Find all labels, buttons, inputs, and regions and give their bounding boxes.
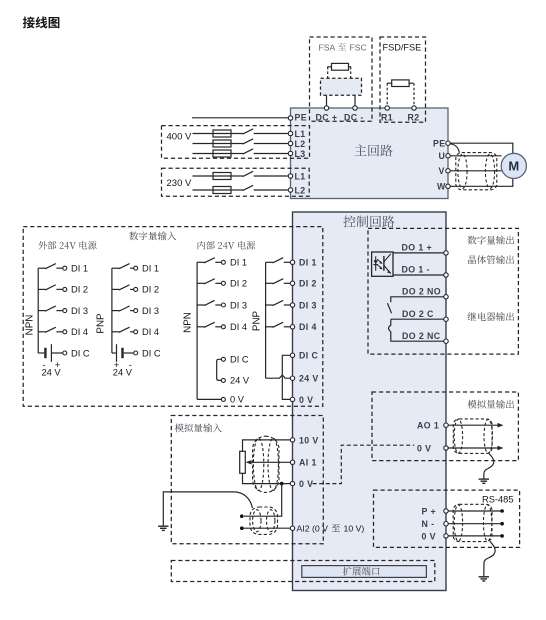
svg-text:10 V: 10 V bbox=[299, 435, 319, 445]
node internal NPN DI 3 bbox=[221, 303, 225, 307]
wire bus to 24V with crossover hop bbox=[266, 375, 291, 378]
label 数字量输出 bbox=[468, 236, 514, 245]
svg-text:L1: L1 bbox=[295, 171, 306, 181]
svg-text:0 V: 0 V bbox=[299, 395, 313, 405]
terminal DI 1 (control) bbox=[290, 260, 294, 264]
node external NPN DI 4 bbox=[63, 330, 67, 334]
relay blade DO2 bbox=[388, 304, 392, 313]
svg-text:10 V): 10 V) bbox=[344, 523, 365, 533]
wire pot bottom to 0V bbox=[243, 473, 291, 483]
wire line PE bbox=[192, 117, 288, 119]
node external PNP DI 4 bbox=[134, 330, 138, 334]
switch external PNP DI 1 bbox=[112, 267, 120, 269]
battery 24V external NPN bbox=[38, 352, 44, 354]
switch internal NPN DI 1 bbox=[197, 261, 205, 263]
box expansion (dashed) bbox=[171, 561, 435, 582]
svg-text:DI 3: DI 3 bbox=[71, 306, 88, 316]
fuse 400V L3 bbox=[213, 150, 231, 157]
svg-text:DO 2 NO: DO 2 NO bbox=[402, 287, 441, 297]
fuse 400V L1 bbox=[213, 130, 231, 137]
svg-text:DI 1: DI 1 bbox=[142, 264, 159, 274]
svg-text:DI 4: DI 4 bbox=[299, 322, 317, 332]
terminal R1 bbox=[385, 106, 389, 110]
svg-text:DO 1 -: DO 1 - bbox=[402, 265, 430, 275]
node internal NPN DI 4 bbox=[221, 325, 225, 329]
svg-text:24 V: 24 V bbox=[299, 374, 319, 384]
svg-text:FSD/FSE: FSD/FSE bbox=[383, 43, 422, 53]
terminal 24 V (control) bbox=[290, 376, 294, 380]
switch external NPN DI 3 bbox=[38, 310, 46, 312]
wire DIC to 0V link (internal PNP) bbox=[282, 355, 290, 399]
node external PNP DI 1 bbox=[134, 266, 138, 270]
svg-text:NPN: NPN bbox=[24, 315, 35, 336]
wire 400V L2 bbox=[193, 143, 236, 145]
terminal N - (RS-485) bbox=[444, 522, 448, 526]
motor M bbox=[501, 153, 526, 178]
wire 230V L1 bbox=[193, 175, 236, 177]
svg-text:U: U bbox=[439, 151, 446, 161]
ground (RS-485) bbox=[483, 576, 485, 578]
svg-text:P +: P + bbox=[422, 506, 437, 516]
wire pot top to 10V bbox=[243, 440, 291, 451]
svg-text:24 V: 24 V bbox=[230, 376, 250, 386]
wire 0V out bbox=[448, 447, 497, 449]
svg-text:DI 1: DI 1 bbox=[71, 264, 88, 274]
svg-text:DI C: DI C bbox=[230, 355, 249, 365]
wire AO shield drain bbox=[484, 453, 494, 479]
svg-text:NPN: NPN bbox=[183, 312, 194, 333]
node internal NPN DI C bbox=[221, 357, 225, 361]
fuse 400V L2 bbox=[213, 140, 231, 147]
svg-text:0 V: 0 V bbox=[417, 443, 431, 453]
svg-text:DC -: DC - bbox=[344, 112, 364, 122]
wire W to motor bbox=[450, 178, 513, 186]
node AI2 wire b bbox=[240, 526, 244, 530]
svg-text:0 V: 0 V bbox=[422, 531, 436, 541]
wire AO1 out bbox=[448, 424, 497, 426]
svg-text:FSA: FSA bbox=[319, 42, 336, 52]
ground (analog input) bbox=[162, 525, 164, 527]
wire 230V L2 bbox=[193, 189, 236, 191]
shielded cable AI2 bbox=[250, 507, 278, 534]
wire PE to motor bbox=[450, 143, 513, 153]
expansion port 扩展端口 bbox=[302, 566, 427, 578]
svg-text:N -: N - bbox=[422, 519, 435, 529]
wire 400V L1 bbox=[193, 133, 236, 135]
node internal NPN DI 1 bbox=[221, 260, 225, 264]
svg-text:DI C: DI C bbox=[299, 351, 318, 361]
svg-text:V: V bbox=[439, 166, 445, 176]
svg-text:PNP: PNP bbox=[252, 310, 263, 331]
svg-text:RS-485: RS-485 bbox=[482, 494, 514, 504]
terminal DI 4 (control) bbox=[290, 325, 294, 329]
dashed leads to R1 R2 bbox=[386, 83, 388, 106]
terminal U bbox=[446, 154, 450, 158]
node bus external NPN bbox=[37, 268, 39, 353]
node external PNP DI 2 bbox=[134, 287, 138, 291]
svg-text:M: M bbox=[508, 159, 519, 174]
svg-text:FSC: FSC bbox=[350, 42, 367, 52]
svg-text:DI C: DI C bbox=[142, 348, 161, 358]
label 数字量输入 bbox=[129, 231, 176, 240]
wire 0V junction down to AI2 pair bbox=[244, 484, 282, 517]
wire 400V L3 bbox=[193, 153, 236, 155]
svg-text:W: W bbox=[437, 182, 446, 192]
terminal DI 2 (control) bbox=[290, 281, 294, 285]
svg-text:AI2 (0 V: AI2 (0 V bbox=[297, 523, 329, 533]
terminal DC+ bbox=[324, 106, 328, 110]
box 400 V supply (dashed) bbox=[162, 126, 310, 159]
wire U to motor bbox=[450, 155, 501, 157]
terminal AO 1 bbox=[444, 423, 448, 427]
potentiometer R1 (setpoint) bbox=[240, 451, 246, 473]
shielded cable AO bbox=[453, 419, 492, 454]
wire braking unit to DC- bbox=[354, 95, 356, 106]
switch 400V L1 bbox=[236, 133, 244, 135]
svg-text:DC +: DC + bbox=[316, 112, 338, 122]
terminal L1 (400V) bbox=[288, 131, 292, 135]
terminal DI C (control) bbox=[290, 353, 294, 357]
terminal DO 1 + bbox=[444, 251, 448, 255]
label 外部 24V 电源 bbox=[38, 241, 96, 250]
switch internal PNP DI 2 bbox=[266, 282, 274, 284]
node junction 0V bbox=[280, 482, 284, 486]
optocoupler U1 (transistor output) bbox=[372, 252, 393, 276]
node bus internal NPN bbox=[196, 262, 198, 399]
node internal NPN 0 V bbox=[221, 397, 225, 401]
svg-text:PE: PE bbox=[433, 139, 446, 149]
wire PE to cable shield (curve) bbox=[451, 144, 460, 153]
svg-text:DO 1 +: DO 1 + bbox=[402, 243, 433, 253]
label 扩展端口 bbox=[343, 567, 380, 576]
wire RS-485 shield drain bbox=[484, 541, 495, 576]
terminal 0 V (control) bbox=[290, 397, 294, 401]
terminal AI 1 bbox=[290, 460, 294, 464]
braking resistor (FSA-FSC) bbox=[332, 63, 349, 70]
node external NPN DI 1 bbox=[63, 266, 67, 270]
node bus internal PNP bbox=[265, 262, 267, 378]
svg-text:DI 3: DI 3 bbox=[230, 300, 247, 310]
wire AI1 wiper bbox=[250, 461, 290, 463]
label 主回路 bbox=[355, 145, 393, 157]
wire DO 2 NO bbox=[391, 297, 444, 302]
control circuit box 控制回路 bbox=[293, 212, 447, 591]
box digital/transistor/relay outputs (dashed) bbox=[368, 228, 518, 354]
box analog input 模拟量输入 (dashed) bbox=[171, 416, 323, 544]
label 内部 24V 电源 bbox=[198, 241, 256, 250]
box 230 V supply (dashed) bbox=[162, 168, 310, 196]
switch external PNP DI 4 bbox=[112, 331, 120, 333]
terminal DI 3 (control) bbox=[290, 303, 294, 307]
wire N - (RS-485) bbox=[448, 523, 500, 525]
svg-text:DI 2: DI 2 bbox=[299, 279, 317, 289]
svg-text:L3: L3 bbox=[295, 149, 306, 159]
terminal 0 V (analog out) bbox=[444, 446, 448, 450]
node P + end bbox=[500, 509, 504, 513]
switch 230V L1 bbox=[236, 175, 244, 177]
wire braking unit to DC+ bbox=[326, 95, 328, 106]
fuse 230V L1 bbox=[213, 173, 231, 180]
switch internal PNP DI 1 bbox=[266, 261, 274, 263]
label 模拟量输出 bbox=[468, 400, 514, 409]
braking resistor (FSD/FSE) bbox=[392, 80, 409, 87]
box FSD/FSE (braking resistor option) bbox=[380, 37, 426, 122]
svg-text:PNP: PNP bbox=[96, 313, 107, 334]
svg-text:DI 3: DI 3 bbox=[299, 300, 317, 310]
wire DO1- bbox=[393, 274, 444, 276]
node external NPN DI 2 bbox=[63, 287, 67, 291]
switch internal PNP DI 4 bbox=[266, 326, 274, 328]
svg-text:DI 2: DI 2 bbox=[230, 279, 247, 289]
terminal AI2 bbox=[290, 526, 294, 530]
terminal R2 bbox=[412, 106, 416, 110]
node internal NPN DI 2 bbox=[221, 281, 225, 285]
shielded cable AI1 bbox=[253, 436, 279, 492]
wire P + (RS-485) bbox=[448, 510, 500, 512]
terminal DO 2 C bbox=[444, 317, 448, 321]
node external PNP DI C bbox=[134, 351, 138, 355]
node 0 V end bbox=[500, 534, 504, 538]
terminal L3 (400V) bbox=[288, 151, 292, 155]
svg-text:DI 2: DI 2 bbox=[142, 285, 159, 295]
svg-text:L1: L1 bbox=[295, 129, 306, 139]
wire AI2 to terminal bbox=[242, 527, 290, 529]
switch internal NPN DI 4 bbox=[197, 326, 205, 328]
terminal L2 (400V) bbox=[288, 141, 292, 145]
wire DO1+ bbox=[393, 252, 444, 254]
fuse 230V L2 bbox=[213, 187, 231, 194]
svg-text:DI 1: DI 1 bbox=[299, 258, 317, 268]
wire 0 V (RS-485) bbox=[448, 535, 500, 537]
shielded cable RS-485 bbox=[453, 504, 492, 541]
wire bus to 0V (internal NPN) bbox=[197, 398, 221, 400]
label 模拟量输入 bbox=[175, 423, 222, 432]
svg-text:DI C: DI C bbox=[71, 348, 90, 358]
terminal W bbox=[446, 184, 450, 188]
wire DO 2 C bbox=[391, 318, 444, 320]
svg-text:24 V: 24 V bbox=[42, 367, 62, 377]
node N - end bbox=[500, 522, 504, 526]
ground (analog output) bbox=[483, 478, 485, 480]
terminal DO 2 NC bbox=[444, 339, 448, 343]
svg-text:PE: PE bbox=[295, 113, 308, 123]
title 接线图 (wiring diagram) bbox=[23, 17, 60, 29]
svg-text:0 V: 0 V bbox=[299, 479, 313, 489]
svg-text:DO 2 NC: DO 2 NC bbox=[402, 331, 441, 341]
box digital inputs 数字量输入 (dashed) bbox=[23, 227, 323, 407]
svg-text:L2: L2 bbox=[295, 139, 306, 149]
terminal 0 V (RS-485) bbox=[444, 534, 448, 538]
svg-text:400 V: 400 V bbox=[167, 132, 192, 143]
svg-text:R2: R2 bbox=[408, 112, 420, 122]
switch 400V L2 bbox=[236, 143, 244, 145]
svg-text:DO 2 C: DO 2 C bbox=[402, 309, 434, 319]
terminal PE (output) bbox=[446, 141, 450, 145]
box analog output 模拟量输出 (dashed) bbox=[372, 392, 518, 461]
svg-text:DI 4: DI 4 bbox=[230, 322, 247, 332]
optocoupler internals bbox=[375, 256, 377, 270]
switch external PNP DI 2 bbox=[112, 288, 120, 290]
switch internal NPN DI 3 bbox=[197, 304, 205, 306]
terminal DO 1 - bbox=[444, 273, 448, 277]
terminal 10 V bbox=[290, 438, 294, 442]
svg-text:DI 2: DI 2 bbox=[71, 285, 88, 295]
main circuit box 主回路 bbox=[291, 108, 449, 199]
braking unit module (dashed) bbox=[321, 78, 362, 95]
terminal V bbox=[446, 169, 450, 173]
wire DO 2 NC with hook bbox=[389, 319, 444, 341]
switch internal NPN DI 2 bbox=[197, 282, 205, 284]
node external NPN DI C bbox=[63, 351, 67, 355]
node bus external PNP bbox=[111, 268, 113, 353]
svg-text:24 V: 24 V bbox=[113, 367, 133, 377]
svg-text:DI 4: DI 4 bbox=[142, 327, 159, 337]
svg-text:DI 3: DI 3 bbox=[142, 306, 159, 316]
box RS-485 (dashed) bbox=[374, 490, 520, 547]
svg-text:R1: R1 bbox=[381, 112, 393, 122]
switch 230V L2 bbox=[236, 189, 244, 191]
wire V to motor bbox=[450, 170, 501, 172]
wire DIC-24V bracket (internal NPN) bbox=[217, 359, 222, 380]
svg-text:AI 1: AI 1 bbox=[299, 458, 317, 468]
terminal DO 2 NO bbox=[444, 295, 448, 299]
dashed leads to braking unit bbox=[327, 67, 329, 78]
switch 400V L3 bbox=[236, 153, 244, 155]
terminal L1 (230V) bbox=[288, 174, 292, 178]
svg-text:0 V: 0 V bbox=[230, 395, 245, 405]
wire shield drain to ground bbox=[163, 492, 234, 526]
switch external NPN DI 1 bbox=[38, 267, 46, 269]
node external NPN DI 3 bbox=[63, 309, 67, 313]
node AI2 wire a bbox=[240, 514, 244, 518]
svg-text:DI 4: DI 4 bbox=[71, 327, 88, 337]
switch external NPN DI 4 bbox=[38, 331, 46, 333]
switch external NPN DI 2 bbox=[38, 288, 46, 290]
box FSA to FSC (braking unit option) bbox=[310, 37, 373, 121]
terminal L2 (230V) bbox=[288, 188, 292, 192]
dashed link 0V to analog output 0V bbox=[313, 445, 415, 483]
battery 24V external PNP bbox=[112, 352, 116, 354]
svg-text:AO 1: AO 1 bbox=[417, 421, 439, 431]
node internal NPN 24 V bbox=[221, 378, 225, 382]
motor cable shield bbox=[456, 153, 497, 190]
label 晶体管输出 bbox=[468, 255, 514, 264]
label 控制回路 bbox=[343, 216, 394, 228]
terminal PE (input) bbox=[288, 116, 292, 120]
node external PNP DI 3 bbox=[134, 309, 138, 313]
terminal 0 V (analog) bbox=[290, 481, 294, 485]
svg-text:L2: L2 bbox=[295, 185, 306, 195]
svg-text:230 V: 230 V bbox=[167, 178, 192, 189]
switch external PNP DI 3 bbox=[112, 310, 120, 312]
switch internal PNP DI 3 bbox=[266, 304, 274, 306]
terminal DC- bbox=[353, 106, 357, 110]
label 继电器输出 bbox=[468, 312, 514, 321]
svg-text:DI 1: DI 1 bbox=[230, 258, 247, 268]
terminal P + (RS-485) bbox=[444, 509, 448, 513]
